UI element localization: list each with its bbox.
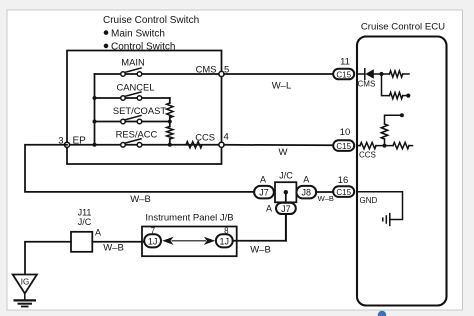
junction: rail-CANCEL xyxy=(93,96,97,100)
wire: diode to junction xyxy=(374,73,390,75)
connector J8 (right) xyxy=(296,186,316,199)
wire: CANCEL row xyxy=(95,97,170,99)
arrow left (J/B internal link) xyxy=(162,237,173,245)
switch RES/ACC xyxy=(121,139,142,147)
svg-text:W–B: W–B xyxy=(318,194,334,203)
power source symbol IG xyxy=(13,275,37,294)
svg-text:7: 7 xyxy=(151,226,156,235)
svg-text:CANCEL: CANCEL xyxy=(116,82,154,93)
wire: bottom row EP to CCS xyxy=(67,144,222,146)
wire: IG stem xyxy=(24,294,26,300)
svg-text:Instrument Panel J/B: Instrument Panel J/B xyxy=(145,213,233,224)
svg-text:J8: J8 xyxy=(302,188,312,198)
connector J7 (bottom) xyxy=(276,203,296,214)
wire: EP W-B from pin3 to J7 xyxy=(25,145,254,192)
svg-text:J7: J7 xyxy=(281,204,291,214)
resistor R2 (CMS lower) xyxy=(390,92,403,98)
svg-text:W–B: W–B xyxy=(130,194,151,205)
wire: J11 to instrument panel J/B xyxy=(92,241,144,243)
svg-text:Cruise Control Switch: Cruise Control Switch xyxy=(103,15,199,26)
wire: R1 stub xyxy=(403,73,409,75)
svg-text:CMS: CMS xyxy=(358,79,376,88)
connector C15 pin 11 xyxy=(333,69,354,80)
wire: J/B internal link xyxy=(172,240,207,242)
wire: J8 to C15-16 xyxy=(316,191,333,193)
svg-text:EP: EP xyxy=(73,135,87,146)
wire: CMS W-L from pin5 to C15-11 xyxy=(224,73,334,75)
svg-text:J/C: J/C xyxy=(279,170,293,180)
wire: resistor ladder column xyxy=(169,98,171,103)
resistor in CCS row xyxy=(186,142,202,148)
svg-text:SET/COAST: SET/COAST xyxy=(113,105,166,116)
wire: J11 to IG ground xyxy=(25,242,71,275)
connector C15 pin 10 xyxy=(333,140,354,151)
svg-text:1J: 1J xyxy=(148,236,158,246)
connector J7 (left) xyxy=(254,186,274,199)
svg-text:8: 8 xyxy=(224,226,229,235)
bullet: Control Switch xyxy=(104,42,176,53)
svg-text:W–L: W–L xyxy=(272,80,292,91)
connector 1J pin 8 xyxy=(216,234,233,247)
wire: CCS node up xyxy=(384,139,386,146)
svg-text:J7: J7 xyxy=(259,188,269,198)
svg-text:MAIN: MAIN xyxy=(121,57,144,68)
svg-text:W–B: W–B xyxy=(103,242,124,253)
svg-text:IG: IG xyxy=(21,277,29,286)
svg-text:A: A xyxy=(260,175,266,185)
ground symbol (IG) xyxy=(14,300,37,306)
svg-text:10: 10 xyxy=(340,127,351,138)
wire: left rail inside switch box xyxy=(94,74,96,145)
node: pin 3 xyxy=(64,142,69,147)
wire: R5 stub xyxy=(409,145,413,147)
junction: CCS node xyxy=(383,144,387,148)
wire: ECU CMS entry xyxy=(357,73,365,75)
svg-text:Cruise Control ECU: Cruise Control ECU xyxy=(361,22,445,33)
svg-text:RES/ACC: RES/ACC xyxy=(116,129,158,140)
arrow right (J/B internal link) xyxy=(204,237,215,245)
wire: R2 stub with node xyxy=(403,94,411,98)
svg-text:C15: C15 xyxy=(336,142,351,151)
resistor ladder lower (RES/ACC) xyxy=(167,127,173,140)
wire: R4 up and right with node xyxy=(385,113,404,124)
switch SET/COAST xyxy=(121,116,142,124)
node: pin 4 xyxy=(219,142,224,147)
diode D1 (CMS input) xyxy=(365,69,374,80)
wire: MAIN row xyxy=(95,73,222,75)
junction: rail-SET/COAST xyxy=(93,120,97,124)
node: pin 5 xyxy=(219,71,224,76)
svg-text:A: A xyxy=(95,228,101,238)
svg-text:C15: C15 xyxy=(336,70,351,79)
connector 1J pin 7 xyxy=(144,234,161,247)
junction: rail-bottom row xyxy=(93,143,97,147)
svg-text:J/C: J/C xyxy=(78,217,92,227)
svg-text:CCS: CCS xyxy=(195,131,215,142)
junction connector J/C box xyxy=(275,182,296,202)
switch MAIN xyxy=(121,68,142,76)
resistor R3 (CCS left) xyxy=(360,142,376,148)
svg-text:11: 11 xyxy=(340,57,350,68)
junction: ladder-bottom row xyxy=(168,143,172,147)
junction: CMS node xyxy=(379,72,383,76)
cruise control ECU box xyxy=(357,37,447,306)
junction: ladder-SET/COAST row xyxy=(168,120,172,124)
cruise control switch box xyxy=(67,51,222,165)
svg-text:Main Switch: Main Switch xyxy=(111,28,165,39)
svg-text:CCS: CCS xyxy=(359,151,376,160)
wire: R3 to junction xyxy=(376,145,393,147)
svg-text:CMS: CMS xyxy=(196,63,217,74)
bullet: Main Switch xyxy=(104,28,165,39)
svg-text:GND: GND xyxy=(360,196,378,205)
wire: ECU CCS entry xyxy=(357,145,360,147)
resistor R1 (CMS upper) xyxy=(390,71,403,77)
wire: GND run inside ECU xyxy=(357,192,403,220)
svg-text:1J: 1J xyxy=(220,236,230,246)
wire: J/B to J7 bottom xyxy=(233,214,286,241)
svg-text:W: W xyxy=(279,147,288,158)
wire: CMS node down xyxy=(382,74,390,96)
svg-text:A: A xyxy=(303,175,309,185)
svg-text:W–B: W–B xyxy=(250,245,271,256)
resistor R4 (CCS vertical) xyxy=(381,124,387,139)
connector C15 pin 16 xyxy=(333,186,354,197)
wire: SET/COAST row xyxy=(95,121,170,123)
resistor ladder upper (SET/COAST) xyxy=(167,103,173,118)
ground symbol (ECU internal) xyxy=(383,214,390,226)
svg-text:C15: C15 xyxy=(336,188,351,197)
wire: J/C down to instrument panel run xyxy=(285,192,287,241)
svg-text:4: 4 xyxy=(224,131,229,142)
svg-text:J11: J11 xyxy=(78,208,92,218)
wire: CCS W from pin4 to C15-10 xyxy=(224,144,334,147)
svg-text:16: 16 xyxy=(338,175,349,186)
resistor R5 (CCS right) xyxy=(393,142,409,148)
junction connector J11 box xyxy=(71,232,92,252)
instrument panel J/B box xyxy=(142,227,237,257)
blue marker dot xyxy=(378,311,386,316)
svg-text:A: A xyxy=(266,204,272,214)
switch CANCEL xyxy=(121,92,142,100)
junction: J/C internal xyxy=(284,190,288,194)
